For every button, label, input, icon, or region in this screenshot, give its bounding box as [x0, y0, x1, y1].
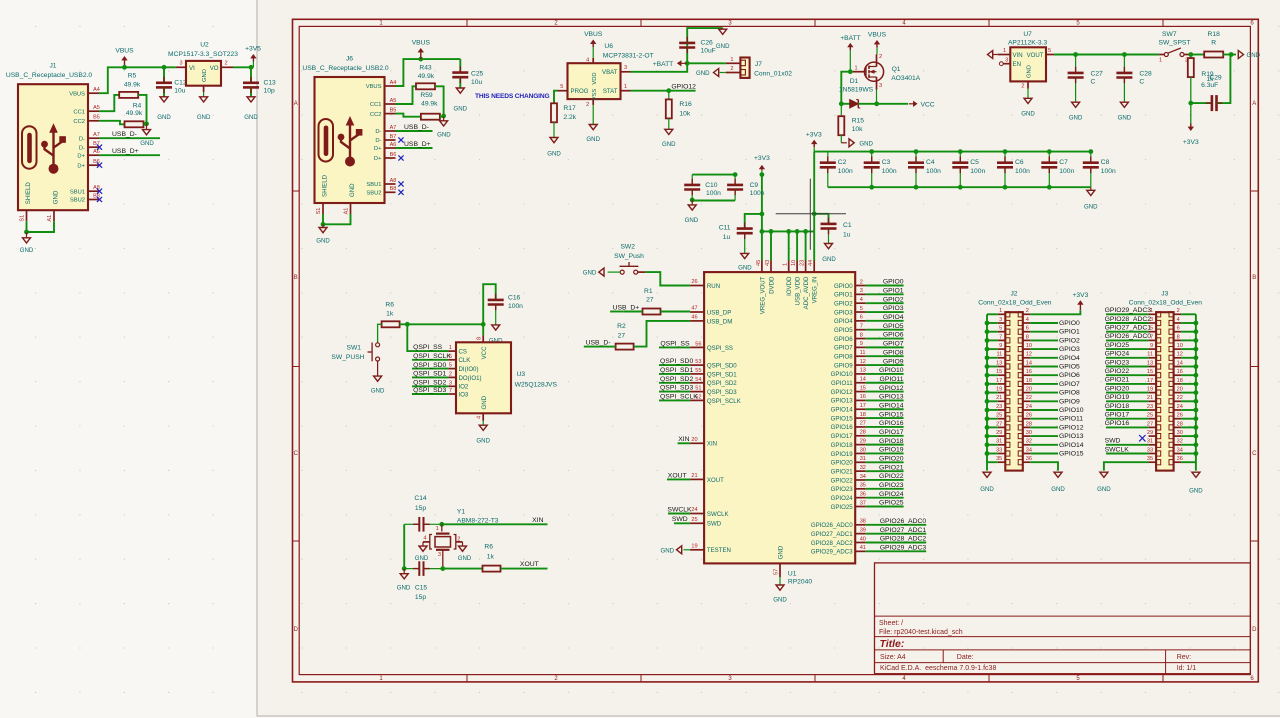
- ground C10: [685, 200, 699, 224]
- svg-text:GPIO23: GPIO23: [831, 486, 854, 493]
- capacitor C10: [684, 175, 721, 200]
- svg-text:44: 44: [808, 260, 814, 266]
- resistor R5: [119, 73, 141, 98]
- svg-text:2: 2: [730, 66, 733, 72]
- svg-text:GPIO18: GPIO18: [879, 438, 904, 445]
- no-connect J1 SBU1: [97, 189, 102, 194]
- svg-text:GND: GND: [662, 141, 676, 148]
- svg-text:VBUS: VBUS: [69, 91, 85, 97]
- svg-text:GPIO9: GPIO9: [1059, 398, 1080, 405]
- svg-text:GND: GND: [1051, 486, 1065, 493]
- svg-text:GND: GND: [53, 190, 60, 204]
- svg-text:ABM8-272-T3: ABM8-272-T3: [457, 517, 499, 524]
- svg-text:A: A: [1252, 101, 1256, 107]
- svg-text:Q1: Q1: [892, 66, 901, 73]
- svg-text:QSPI_SD1: QSPI_SD1: [660, 367, 693, 374]
- svg-text:GND: GND: [1084, 204, 1098, 211]
- svg-text:IO3: IO3: [459, 391, 469, 398]
- svg-text:4: 4: [423, 536, 426, 542]
- svg-text:39: 39: [860, 527, 866, 533]
- wire SW2 to RUN: [645, 272, 690, 285]
- ground U7: [1021, 89, 1035, 118]
- svg-text:R5: R5: [128, 73, 137, 80]
- svg-text:C16: C16: [508, 294, 521, 301]
- svg-text:R59: R59: [420, 92, 433, 99]
- svg-text:12: 12: [860, 359, 866, 365]
- transistor Q1 AO3401A: [853, 54, 921, 90]
- ground TESTEN: [660, 546, 690, 555]
- regulator U7 AP2112K-3.3: [998, 31, 1054, 90]
- svg-text:GPIO17: GPIO17: [1105, 412, 1130, 419]
- svg-text:CS: CS: [459, 349, 467, 356]
- svg-text:4: 4: [1026, 317, 1029, 323]
- cursor crosshair: [776, 179, 846, 250]
- svg-text:A4: A4: [390, 80, 397, 86]
- svg-text:STAT: STAT: [603, 88, 618, 95]
- resistor R1: [643, 288, 661, 315]
- svg-text:GPIO14: GPIO14: [879, 402, 904, 409]
- svg-text:15p: 15p: [415, 505, 426, 512]
- ground C28: [1118, 102, 1132, 121]
- svg-text:GND: GND: [197, 114, 211, 121]
- svg-text:GND: GND: [1097, 486, 1111, 493]
- svg-text:GND: GND: [458, 555, 472, 562]
- svg-text:29: 29: [1147, 430, 1153, 436]
- svg-text:49.9k: 49.9k: [124, 82, 141, 89]
- wire U2 out: [233, 65, 253, 70]
- svg-text:SW2: SW2: [620, 244, 635, 251]
- label QSPI_SD2: [659, 376, 693, 383]
- svg-text:GND: GND: [481, 395, 488, 409]
- wire IOVDD drops: [771, 231, 814, 260]
- label XIN crystal: [442, 517, 548, 524]
- ground R15: [841, 135, 873, 147]
- svg-text:C7: C7: [1059, 159, 1068, 166]
- svg-text:54: 54: [695, 377, 701, 383]
- svg-text:3: 3: [879, 83, 882, 89]
- wire R1 left: [624, 311, 643, 313]
- svg-text:EN: EN: [1013, 61, 1021, 68]
- svg-text:10: 10: [1026, 343, 1032, 349]
- label USB_D+ J1: [99, 148, 160, 155]
- svg-text:32: 32: [1177, 439, 1183, 445]
- svg-text:R1: R1: [644, 288, 653, 295]
- wire VBUS J1: [99, 67, 176, 93]
- svg-text:GND: GND: [738, 265, 752, 272]
- svg-text:GPIO5: GPIO5: [883, 323, 904, 330]
- svg-text:Date:: Date:: [957, 654, 974, 661]
- pin QSPI_SD2: [690, 377, 737, 387]
- svg-text:36: 36: [860, 491, 866, 497]
- svg-text:QSPI_SS: QSPI_SS: [660, 341, 690, 348]
- svg-text:35: 35: [860, 483, 866, 489]
- svg-text:USB_DP: USB_DP: [707, 309, 731, 316]
- label USB_D- R2: [584, 340, 611, 347]
- svg-text:GND: GND: [1021, 110, 1035, 117]
- svg-text:GND: GND: [696, 70, 710, 77]
- svg-text:100n: 100n: [750, 190, 765, 197]
- wire +3V3 to RP2040: [813, 152, 815, 232]
- no-connect J1 SBU2: [97, 197, 102, 202]
- svg-text:XIN: XIN: [532, 517, 543, 524]
- svg-text:VCC: VCC: [921, 101, 935, 108]
- pin XOUT: [690, 473, 724, 484]
- svg-text:34: 34: [1177, 447, 1183, 453]
- svg-text:C: C: [1139, 79, 1144, 86]
- svg-text:SW_PUSH: SW_PUSH: [331, 354, 364, 361]
- svg-text:SBU2: SBU2: [70, 198, 85, 204]
- svg-text:GPIO1: GPIO1: [834, 292, 853, 299]
- wire R2 left: [607, 346, 616, 348]
- svg-text:GPIO13: GPIO13: [879, 394, 904, 401]
- wire R1 to USB_DP: [661, 311, 691, 313]
- svg-text:SWCLK: SWCLK: [707, 511, 729, 518]
- svg-text:GPIO19: GPIO19: [1105, 394, 1130, 401]
- svg-text:9: 9: [1150, 343, 1153, 349]
- capacitor C7 100n: [1041, 149, 1074, 189]
- svg-text:15p: 15p: [415, 594, 426, 601]
- svg-text:U3: U3: [517, 371, 526, 378]
- svg-text:3: 3: [624, 65, 627, 71]
- svg-text:QSPI_SCLK: QSPI_SCLK: [707, 398, 741, 405]
- ground C15: [397, 569, 411, 592]
- svg-text:GND: GND: [349, 183, 356, 197]
- svg-text:J6: J6: [346, 56, 353, 63]
- svg-text:31: 31: [1147, 439, 1153, 445]
- capacitor C2 100n: [820, 152, 853, 188]
- svg-text:GPIO0: GPIO0: [1059, 320, 1080, 327]
- svg-text:C6: C6: [1015, 159, 1024, 166]
- svg-text:GPIO6: GPIO6: [834, 336, 853, 343]
- svg-text:8: 8: [1177, 334, 1180, 340]
- svg-text:IO2: IO2: [459, 384, 469, 391]
- svg-text:22: 22: [1177, 395, 1183, 401]
- svg-text:27: 27: [618, 332, 626, 339]
- wire CC1 to R43: [396, 86, 417, 104]
- wire J6 shield gnd: [321, 214, 351, 227]
- label USB_D+ R1: [610, 304, 639, 311]
- svg-text:GPIO8: GPIO8: [834, 354, 853, 361]
- pin QSPI_SD3: [690, 386, 737, 396]
- junction XOUT: [440, 566, 445, 571]
- svg-text:3: 3: [999, 317, 1002, 323]
- svg-text:C27: C27: [1091, 70, 1104, 77]
- svg-text:10u: 10u: [471, 79, 482, 86]
- svg-text:Id: 1/1: Id: 1/1: [1177, 665, 1197, 672]
- svg-text:GPIO21: GPIO21: [831, 468, 854, 475]
- svg-text:D+: D+: [374, 146, 382, 152]
- label USB_D+ J6: [396, 141, 433, 148]
- svg-text:1: 1: [854, 65, 857, 71]
- svg-text:1: 1: [1003, 48, 1006, 54]
- svg-text:QSPI_SD3: QSPI_SD3: [413, 387, 446, 394]
- svg-text:J1: J1: [49, 63, 56, 70]
- svg-text:B7: B7: [390, 134, 397, 140]
- svg-text:41: 41: [860, 545, 866, 551]
- svg-text:VBUS: VBUS: [584, 31, 603, 38]
- svg-text:GND: GND: [1118, 114, 1132, 121]
- svg-text:2: 2: [449, 371, 452, 377]
- svg-text:GPIO20: GPIO20: [1105, 385, 1130, 392]
- svg-text:33: 33: [996, 447, 1002, 453]
- svg-text:57: 57: [774, 569, 780, 575]
- svg-text:100n: 100n: [970, 168, 985, 175]
- svg-text:C14: C14: [414, 495, 427, 502]
- ground U1 pin57: [773, 545, 787, 603]
- svg-text:GND: GND: [586, 136, 600, 143]
- svg-text:25: 25: [691, 517, 697, 523]
- svg-text:7: 7: [449, 388, 452, 394]
- svg-text:11: 11: [996, 352, 1002, 358]
- svg-text:10k: 10k: [852, 126, 863, 133]
- svg-text:RUN: RUN: [707, 283, 720, 290]
- svg-text:GND: GND: [859, 140, 873, 147]
- svg-text:QSPI_SD0: QSPI_SD0: [660, 358, 693, 365]
- svg-text:GPIO17: GPIO17: [831, 433, 854, 440]
- svg-text:GPIO2: GPIO2: [834, 300, 853, 307]
- wire QSPI_SS to U3: [407, 324, 448, 351]
- svg-text:GPIO5: GPIO5: [834, 327, 853, 334]
- svg-text:24: 24: [1026, 404, 1032, 410]
- svg-text:GPIO25: GPIO25: [831, 504, 854, 511]
- capacitor C27: [1068, 55, 1103, 103]
- svg-text:GPIO18: GPIO18: [831, 442, 854, 449]
- svg-text:GPIO3: GPIO3: [834, 309, 853, 316]
- svg-text:SW_SPST: SW_SPST: [1159, 40, 1191, 47]
- wire +3V3 bus top: [814, 151, 1091, 153]
- svg-text:MCP1517-3.3_SOT223: MCP1517-3.3_SOT223: [168, 51, 238, 58]
- wire R43 to junction: [435, 86, 444, 116]
- svg-text:3: 3: [438, 552, 441, 558]
- svg-text:VO: VO: [210, 65, 219, 72]
- svg-text:GND: GND: [371, 387, 385, 394]
- svg-text:R: R: [1211, 40, 1216, 47]
- svg-text:12: 12: [1177, 352, 1183, 358]
- resistor R18: [1204, 31, 1223, 58]
- svg-text:26: 26: [1026, 413, 1032, 419]
- svg-text:GND: GND: [1069, 114, 1083, 121]
- svg-text:XOUT: XOUT: [668, 472, 687, 479]
- svg-text:GPIO23: GPIO23: [1105, 359, 1130, 366]
- ground crystal left: [415, 542, 429, 562]
- label GPIO12: [671, 83, 696, 90]
- svg-text:GPIO9: GPIO9: [834, 362, 853, 369]
- svg-text:GND: GND: [397, 584, 411, 591]
- svg-text:C1: C1: [843, 222, 852, 229]
- svg-text:2.2k: 2.2k: [563, 114, 576, 121]
- svg-text:10p: 10p: [264, 88, 275, 95]
- svg-text:QSPI_SD2: QSPI_SD2: [660, 376, 693, 383]
- svg-text:8: 8: [1026, 334, 1029, 340]
- svg-text:GPIO29_ADC3: GPIO29_ADC3: [811, 549, 853, 556]
- svg-text:C2: C2: [838, 159, 847, 166]
- svg-text:B5: B5: [390, 107, 397, 113]
- svg-text:S1: S1: [20, 215, 26, 222]
- svg-text:B: B: [294, 275, 298, 281]
- svg-text:AO3401A: AO3401A: [891, 75, 921, 82]
- svg-text:GND: GND: [437, 132, 451, 139]
- ground C25: [454, 88, 468, 112]
- svg-text:1k: 1k: [487, 554, 495, 561]
- svg-text:GPIO14: GPIO14: [1059, 442, 1084, 449]
- junction C12: [162, 65, 167, 70]
- capacitor C26: [679, 28, 723, 63]
- svg-text:VDD: VDD: [592, 72, 598, 84]
- wire J2 +3V3: [1030, 310, 1080, 314]
- wire J2 left bus: [985, 314, 998, 470]
- svg-text:21: 21: [691, 473, 697, 479]
- svg-text:25: 25: [996, 413, 1002, 419]
- svg-text:14: 14: [860, 377, 866, 383]
- svg-text:36: 36: [1177, 456, 1183, 462]
- svg-text:GPIO11: GPIO11: [880, 376, 904, 383]
- svg-text:3: 3: [1005, 57, 1008, 63]
- switch SW1 SW_PUSH: [331, 343, 379, 362]
- svg-text:SHIELD: SHIELD: [322, 174, 329, 197]
- wire VCC riser: [483, 284, 496, 324]
- svg-text:49.9k: 49.9k: [126, 110, 143, 117]
- svg-text:51: 51: [695, 386, 701, 392]
- svg-text:THIS NEEDS CHANGING: THIS NEEDS CHANGING: [475, 93, 549, 100]
- pin XIN: [690, 437, 717, 448]
- svg-text:49.9k: 49.9k: [418, 73, 435, 80]
- svg-text:5: 5: [560, 84, 563, 90]
- svg-text:1: 1: [436, 526, 439, 532]
- svg-text:4: 4: [1177, 317, 1180, 323]
- label QSPI_SD0 U3: [412, 362, 448, 369]
- svg-text:1: 1: [1159, 58, 1162, 64]
- pin SWCLK: [690, 507, 728, 518]
- svg-text:GPIO0: GPIO0: [834, 283, 853, 290]
- connector J3 Conn_02x18_Odd_Even: [1129, 291, 1203, 471]
- svg-text:22: 22: [1026, 395, 1032, 401]
- svg-text:R2: R2: [617, 323, 626, 330]
- sheet frame: [293, 19, 1259, 682]
- svg-text:A1: A1: [344, 208, 350, 215]
- svg-text:+3V3: +3V3: [1183, 139, 1199, 146]
- svg-text:C5: C5: [970, 159, 979, 166]
- wire VBAT to +BATT: [631, 61, 690, 72]
- power VCC: [909, 101, 935, 108]
- ground R59 junction: [437, 117, 451, 139]
- svg-text:GPIO11: GPIO11: [831, 380, 853, 387]
- svg-text:SHIELD: SHIELD: [25, 182, 32, 205]
- svg-text:QSPI_SD0: QSPI_SD0: [413, 362, 446, 369]
- power VBUS U6: [584, 31, 603, 58]
- svg-text:Rev:: Rev:: [1177, 654, 1191, 661]
- wire R19 bottom: [1188, 77, 1193, 105]
- svg-text:20: 20: [1026, 387, 1032, 393]
- svg-text:S1: S1: [316, 208, 322, 215]
- ground R17: [547, 122, 561, 157]
- svg-text:GPIO23: GPIO23: [879, 482, 904, 489]
- svg-text:GPIO7: GPIO7: [883, 341, 904, 348]
- wire SW7 to R18: [1191, 54, 1204, 56]
- svg-text:GPIO15: GPIO15: [831, 415, 854, 422]
- svg-text:25: 25: [1147, 413, 1153, 419]
- svg-text:DVDD: DVDD: [768, 276, 775, 294]
- svg-text:GPIO15: GPIO15: [1059, 451, 1084, 458]
- power +3V5: [245, 46, 261, 68]
- svg-text:QSPI_SD0: QSPI_SD0: [707, 363, 737, 370]
- svg-text:2: 2: [224, 61, 227, 67]
- svg-text:GPIO22: GPIO22: [879, 473, 904, 480]
- svg-text:SBU1: SBU1: [70, 189, 85, 195]
- svg-text:D1: D1: [850, 78, 859, 85]
- svg-text:18: 18: [1177, 378, 1183, 384]
- svg-text:2: 2: [1026, 308, 1029, 314]
- label SWD U1: [672, 516, 690, 523]
- svg-text:CC2: CC2: [370, 112, 382, 118]
- svg-text:C9: C9: [750, 182, 759, 189]
- svg-text:QSPI_SD1: QSPI_SD1: [413, 371, 446, 378]
- svg-text:6: 6: [1177, 326, 1180, 332]
- svg-text:SWD: SWD: [672, 516, 688, 523]
- svg-text:27: 27: [860, 421, 866, 427]
- svg-text:QSPI_SS: QSPI_SS: [707, 345, 733, 352]
- ground C13: [244, 97, 258, 121]
- svg-text:14: 14: [1026, 360, 1032, 366]
- svg-text:21: 21: [996, 395, 1002, 401]
- wire cap link left: [402, 524, 407, 571]
- flash U3 W25Q128JVS: [448, 324, 557, 421]
- wire J3 right bus: [1181, 314, 1198, 470]
- svg-text:GPIO27_ADC1: GPIO27_ADC1: [1105, 325, 1152, 332]
- svg-text:14: 14: [1177, 360, 1183, 366]
- svg-text:27: 27: [646, 296, 654, 303]
- resistor R6 1k: [382, 302, 400, 328]
- label USB_D- J1: [99, 131, 160, 138]
- svg-text:GPIO28_ADC2: GPIO28_ADC2: [880, 536, 927, 543]
- svg-text:18: 18: [860, 412, 866, 418]
- wire IOVDD rail: [762, 229, 814, 234]
- svg-text:32: 32: [860, 465, 866, 471]
- wire C10 C9 top: [692, 172, 737, 177]
- svg-text:1u: 1u: [843, 231, 851, 238]
- svg-text:D-: D-: [375, 138, 381, 144]
- no-connect J6 B7: [398, 137, 403, 142]
- svg-text:AP2112K-3.3: AP2112K-3.3: [1008, 40, 1048, 47]
- power +BATT Q1: [840, 35, 861, 71]
- svg-text:27: 27: [996, 421, 1002, 427]
- svg-text:C13: C13: [264, 80, 277, 87]
- gpio adc pins: [811, 518, 926, 556]
- svg-text:GPIO2: GPIO2: [1059, 337, 1080, 344]
- svg-text:27: 27: [1147, 421, 1153, 427]
- ground cap rail: [1084, 187, 1098, 211]
- svg-text:100n: 100n: [1059, 168, 1074, 175]
- pin SWD: [690, 517, 722, 528]
- power VBUS J6: [412, 40, 431, 60]
- ground U3: [476, 421, 490, 444]
- ground R4 junction: [140, 124, 154, 147]
- svg-text:GPIO16: GPIO16: [1105, 420, 1130, 427]
- capacitor C13: [243, 67, 276, 97]
- wire R6 left to SW1: [378, 324, 382, 343]
- label QSPI_SCLK U3: [412, 353, 451, 360]
- svg-text:17: 17: [860, 403, 866, 409]
- ground J6: [316, 224, 330, 244]
- svg-text:B8: B8: [390, 186, 397, 192]
- svg-text:1N5819WS: 1N5819WS: [839, 87, 874, 94]
- capacitor C12: [156, 67, 187, 97]
- svg-text:GPIO24: GPIO24: [879, 491, 904, 498]
- svg-text:45: 45: [756, 260, 762, 266]
- svg-text:GPIO28_ADC2: GPIO28_ADC2: [811, 540, 853, 547]
- svg-text:21: 21: [1147, 395, 1153, 401]
- power +BATT U6: [653, 61, 687, 68]
- svg-text:J2: J2: [1010, 291, 1017, 298]
